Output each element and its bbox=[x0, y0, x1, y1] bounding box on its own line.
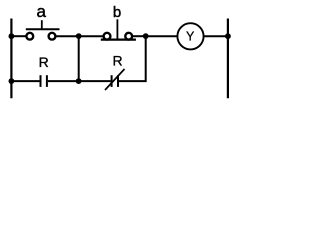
wire: contact R2 up to node N2 bbox=[119, 36, 146, 81]
svg-text:Y: Y bbox=[186, 29, 195, 43]
svg-text:a: a bbox=[36, 2, 46, 21]
relay contact R2 (NC) bbox=[105, 69, 125, 90]
junction dot left rail bottom rung bbox=[9, 78, 15, 84]
right power rail bbox=[227, 19, 229, 99]
wire: left rail to relay contact R1 bbox=[11, 80, 39, 82]
branch wire: node N1 down to node N3 bbox=[78, 36, 80, 81]
node N1 junction dot bbox=[76, 33, 82, 39]
pushbutton b (NC break contact) bbox=[101, 19, 136, 39]
svg-text:R: R bbox=[39, 54, 49, 70]
wire: left rail to pushbutton a bbox=[11, 35, 26, 37]
node N2 junction dot bbox=[143, 33, 149, 39]
node N3 junction dot bbox=[76, 78, 82, 84]
wire: node N2 to coil Y bbox=[146, 35, 178, 37]
left power rail bbox=[10, 19, 12, 99]
wire: coil Y to right rail bbox=[204, 35, 228, 37]
pushbutton a (NO make contact) bbox=[26, 20, 60, 39]
svg-text:b: b bbox=[113, 4, 121, 21]
junction dot at right rail bbox=[225, 33, 231, 39]
svg-text:R: R bbox=[113, 53, 123, 69]
wire: node N1 to pushbutton b bbox=[79, 35, 104, 37]
wire: contact R1 to node N3 bbox=[48, 80, 79, 82]
junction dot left rail top rung bbox=[9, 33, 15, 39]
wire: node N3 to relay contact R2 bbox=[79, 80, 111, 82]
wire: pushbutton b to node N2 bbox=[132, 35, 146, 37]
relay contact R1 (NO) bbox=[41, 75, 47, 87]
coil Y circle bbox=[177, 23, 203, 49]
wire: pushbutton a to node N1 bbox=[56, 35, 79, 37]
